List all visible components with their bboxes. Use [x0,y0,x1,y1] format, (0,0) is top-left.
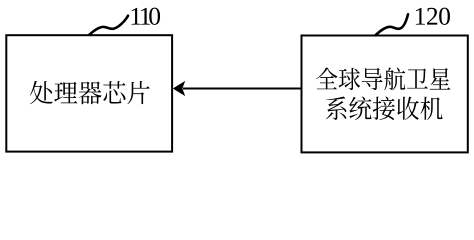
text 处理器芯片 [30,81,150,104]
lead line squiggle to box 120 [376,14,409,35]
arrowhead at box 110 [173,81,185,96]
box 120 (GNSS receiver block) [302,36,468,153]
text 系统接收机 (line 2) [326,97,443,121]
text 全球导航卫星 (line 1) [316,67,450,90]
label 110 [132,8,161,25]
box 110 (processor chip block) [6,35,172,151]
wire arrow from box 120 to box 110 [183,88,301,90]
label 120 [416,8,450,25]
lead line squiggle to box 110 [89,16,128,35]
